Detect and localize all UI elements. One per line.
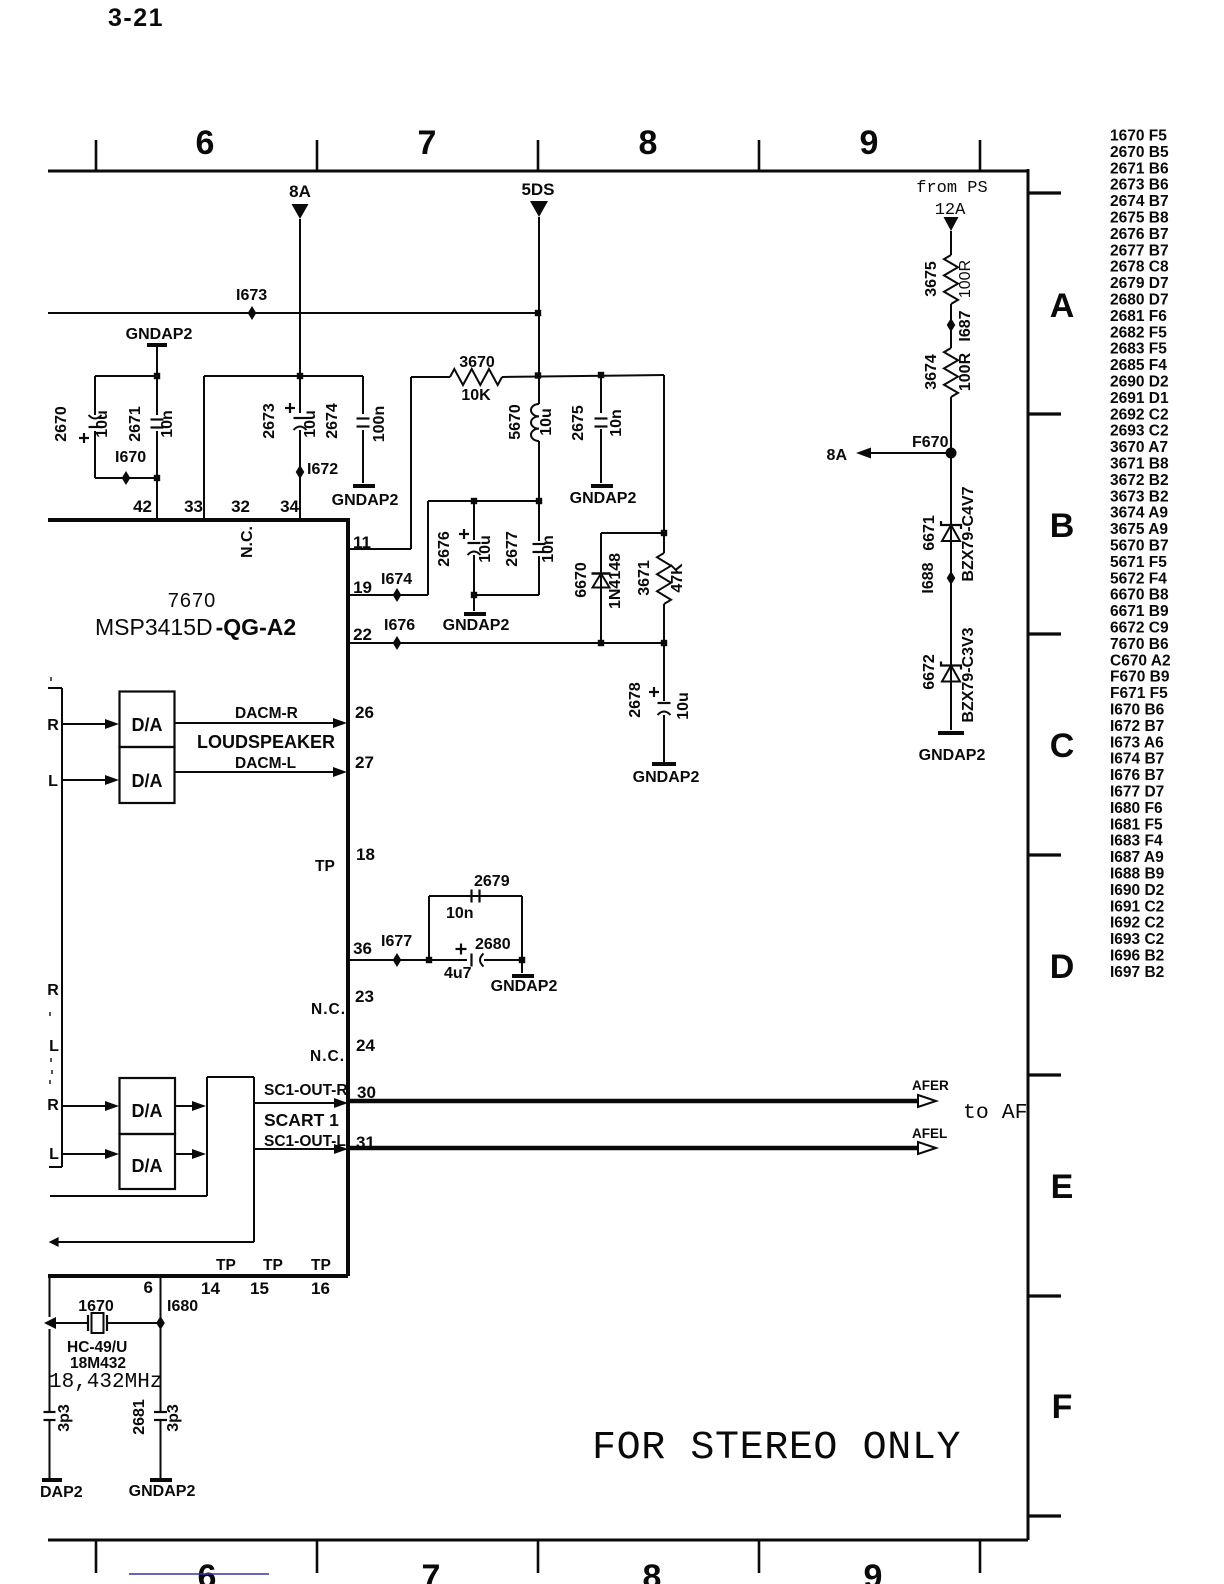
svg-text:9: 9 [864,1558,883,1584]
svg-text:I680 F6: I680 F6 [1110,800,1163,817]
svg-text:4u7: 4u7 [444,965,472,982]
svg-text:2676: 2676 [436,531,453,567]
svg-text:2680 D7: 2680 D7 [1110,292,1169,309]
svg-text:AFEL: AFEL [912,1126,947,1141]
svg-text:3p3: 3p3 [56,1404,73,1432]
svg-text:3672 B2: 3672 B2 [1110,472,1169,489]
svg-text:I693 C2: I693 C2 [1110,931,1164,948]
svg-text:TP: TP [311,1257,331,1274]
svg-text:100R: 100R [957,352,974,391]
svg-text:6672: 6672 [921,654,938,690]
svg-text:MSP3415D-QG-A2: MSP3415D-QG-A2 [95,614,296,640]
svg-text:6671: 6671 [921,515,938,551]
svg-text:2692 C2: 2692 C2 [1110,406,1169,423]
svg-text:I674: I674 [381,571,412,588]
svg-text:I683 F4: I683 F4 [1110,833,1163,850]
svg-text:DACM-R: DACM-R [235,705,298,722]
svg-text:BZX79-C4V7: BZX79-C4V7 [960,486,977,581]
svg-text:R: R [47,982,59,999]
svg-text:SC1-OUT-R: SC1-OUT-R [264,1082,348,1099]
svg-text:18: 18 [356,845,375,864]
svg-text:3673 B2: 3673 B2 [1110,488,1169,505]
svg-text:3670 A7: 3670 A7 [1110,439,1168,456]
svg-text:N.C.: N.C. [311,1001,346,1018]
svg-text:D/A: D/A [132,771,163,791]
svg-text:2675 B8: 2675 B8 [1110,210,1169,227]
svg-text:I687 A9: I687 A9 [1110,849,1164,866]
svg-text:I674 B7: I674 B7 [1110,751,1164,768]
svg-text:9: 9 [860,124,879,162]
svg-text:5670 B7: 5670 B7 [1110,538,1169,555]
svg-text:8: 8 [639,124,658,162]
svg-text:GNDAP2: GNDAP2 [570,490,637,507]
svg-text:DAP2: DAP2 [40,1484,83,1501]
svg-text:2693 C2: 2693 C2 [1110,423,1169,440]
svg-text:100R: 100R [957,260,974,298]
svg-text:I692 C2: I692 C2 [1110,915,1164,932]
svg-text:2676 B7: 2676 B7 [1110,226,1169,243]
svg-text:7670 B6: 7670 B6 [1110,636,1169,653]
svg-text:100n: 100n [371,406,388,442]
svg-text:2670: 2670 [53,406,70,442]
svg-text:C: C [1050,727,1075,765]
svg-text:18M432: 18M432 [70,1355,126,1372]
svg-text:FOR STEREO ONLY: FOR STEREO ONLY [592,1426,961,1471]
svg-text:6: 6 [144,1278,153,1297]
svg-text:2671: 2671 [127,406,144,442]
svg-text:I672 B7: I672 B7 [1110,718,1164,735]
svg-text:I691 C2: I691 C2 [1110,898,1164,915]
svg-text:3671 B8: 3671 B8 [1110,456,1169,473]
svg-text:42: 42 [133,497,152,516]
svg-text:I688: I688 [920,562,937,593]
svg-text:26: 26 [355,703,374,722]
svg-text:2681: 2681 [131,1399,148,1435]
svg-text:2674: 2674 [324,403,341,439]
svg-text:33: 33 [184,497,203,516]
svg-text:F670: F670 [912,434,949,451]
svg-text:L: L [49,1038,59,1055]
svg-text:23: 23 [355,987,374,1006]
svg-text:2680: 2680 [475,936,511,953]
svg-text:3671: 3671 [636,560,653,596]
svg-text:24: 24 [356,1036,375,1055]
svg-text:L: L [49,1146,59,1163]
svg-text:BZX79-C3V3: BZX79-C3V3 [960,627,977,722]
svg-text:I697 B2: I697 B2 [1110,964,1164,981]
svg-text:I670 B6: I670 B6 [1110,702,1165,719]
svg-text:B: B [1050,507,1075,545]
svg-text:32: 32 [231,497,250,516]
svg-text:10u: 10u [94,410,111,438]
svg-text:GNDAP2: GNDAP2 [491,978,558,995]
svg-text:2681 F6: 2681 F6 [1110,308,1167,325]
svg-text:I688 B9: I688 B9 [1110,866,1165,883]
svg-text:E: E [1051,1168,1074,1206]
svg-text:D/A: D/A [132,1156,163,1176]
svg-text:2670 B5: 2670 B5 [1110,144,1169,161]
svg-text:SC1-OUT-L: SC1-OUT-L [264,1133,346,1150]
svg-text:1670 F5: 1670 F5 [1110,128,1167,145]
svg-text:I690 D2: I690 D2 [1110,882,1164,899]
svg-text:2679: 2679 [474,873,510,890]
svg-text:2674 B7: 2674 B7 [1110,193,1169,210]
svg-text:22: 22 [353,625,372,644]
svg-text:47K: 47K [669,563,686,593]
svg-text:2682 F5: 2682 F5 [1110,324,1167,341]
svg-text:GNDAP2: GNDAP2 [443,617,510,634]
svg-text:6670 B8: 6670 B8 [1110,587,1169,604]
svg-text:TP: TP [263,1257,283,1274]
svg-text:1N4148: 1N4148 [607,553,624,609]
svg-text:D/A: D/A [132,715,163,735]
svg-text:I687: I687 [957,310,974,341]
svg-text:3-21: 3-21 [108,4,164,32]
svg-text:I672: I672 [307,461,338,478]
svg-text:5671 F5: 5671 F5 [1110,554,1167,571]
svg-text:D: D [1050,948,1075,986]
svg-text:2685 F4: 2685 F4 [1110,357,1167,374]
svg-text:3674 A9: 3674 A9 [1110,505,1168,522]
svg-text:LOUDSPEAKER: LOUDSPEAKER [197,732,335,752]
svg-text:I696 B2: I696 B2 [1110,948,1164,965]
svg-text:10u: 10u [675,692,692,720]
svg-text:2673 B6: 2673 B6 [1110,177,1169,194]
svg-text:8A: 8A [289,182,311,201]
svg-text:AFER: AFER [912,1078,949,1093]
svg-text:7: 7 [422,1558,441,1584]
svg-text:34: 34 [280,497,299,516]
svg-text:15: 15 [250,1279,269,1298]
svg-text:3670: 3670 [459,354,495,371]
svg-text:10n: 10n [159,410,176,438]
svg-text:2691 D1: 2691 D1 [1110,390,1169,407]
svg-text:SCART 1: SCART 1 [264,1110,339,1130]
svg-text:2683 F5: 2683 F5 [1110,341,1167,358]
svg-text:I670: I670 [115,449,146,466]
svg-text:2679 D7: 2679 D7 [1110,275,1169,292]
svg-text:16: 16 [311,1279,330,1298]
svg-text:I673: I673 [236,287,267,304]
svg-text:10K: 10K [461,387,491,404]
svg-text:5DS: 5DS [521,180,554,199]
svg-text:11: 11 [353,533,371,552]
svg-text:18,432MHz: 18,432MHz [49,1371,162,1394]
svg-text:10n: 10n [540,535,557,563]
svg-text:6671 B9: 6671 B9 [1110,603,1169,620]
svg-text:3674: 3674 [923,354,940,390]
svg-text:I677 D7: I677 D7 [1110,784,1164,801]
svg-text:I676 B7: I676 B7 [1110,767,1164,784]
svg-text:HC-49/U: HC-49/U [67,1339,127,1356]
svg-text:I673 A6: I673 A6 [1110,734,1164,751]
svg-text:TP: TP [315,858,335,875]
svg-text:from PS: from PS [916,179,987,198]
svg-text:I677: I677 [381,933,412,950]
svg-text:F670 B9: F670 B9 [1110,669,1170,686]
svg-text:TP: TP [216,1257,236,1274]
svg-text:2678 C8: 2678 C8 [1110,259,1169,276]
svg-text:5672 F4: 5672 F4 [1110,570,1167,587]
svg-text:3675: 3675 [923,261,940,297]
svg-text:10u: 10u [302,410,319,438]
svg-text:D/A: D/A [132,1101,163,1121]
svg-text:N.C.: N.C. [310,1048,345,1065]
svg-text:R: R [47,1097,59,1114]
svg-text:7670: 7670 [168,590,217,612]
svg-text:A: A [1050,287,1075,325]
svg-text:10u: 10u [538,408,555,436]
svg-text:6670: 6670 [573,562,590,598]
svg-text:19: 19 [353,578,372,597]
svg-text:10n: 10n [608,409,625,437]
svg-text:GNDAP2: GNDAP2 [126,326,193,343]
svg-text:I680: I680 [167,1298,198,1315]
svg-text:36: 36 [353,939,372,958]
svg-text:8: 8 [643,1558,662,1584]
svg-text:2677 B7: 2677 B7 [1110,242,1169,259]
svg-text:N.C.: N.C. [239,526,256,558]
svg-text:2673: 2673 [261,403,278,439]
svg-text:7: 7 [418,124,437,162]
svg-text:5670: 5670 [507,404,524,440]
svg-text:6672 C9: 6672 C9 [1110,620,1169,637]
svg-text:GNDAP2: GNDAP2 [129,1483,196,1500]
svg-text:GNDAP2: GNDAP2 [919,747,986,764]
svg-text:10u: 10u [477,535,494,563]
svg-text:to AF: to AF [963,1101,1028,1125]
svg-text:R: R [47,717,59,734]
svg-text:3p3: 3p3 [165,1404,182,1432]
svg-text:DACM-L: DACM-L [235,755,296,772]
svg-text:GNDAP2: GNDAP2 [332,492,399,509]
svg-text:14: 14 [201,1279,220,1298]
svg-text:2677: 2677 [504,531,521,567]
svg-text:3675 A9: 3675 A9 [1110,521,1168,538]
svg-text:F671 F5: F671 F5 [1110,685,1168,702]
svg-text:F: F [1052,1388,1073,1426]
svg-text:2671 B6: 2671 B6 [1110,160,1169,177]
svg-text:L: L [48,773,58,790]
svg-text:10n: 10n [446,905,474,922]
svg-text:8A: 8A [827,447,848,464]
svg-text:6: 6 [196,124,215,162]
svg-text:I681 F5: I681 F5 [1110,816,1163,833]
svg-text:C670 A2: C670 A2 [1110,652,1171,669]
svg-text:2675: 2675 [570,405,587,441]
svg-text:2678: 2678 [627,682,644,718]
svg-text:I676: I676 [384,617,415,634]
svg-text:GNDAP2: GNDAP2 [633,769,700,786]
svg-text:6: 6 [198,1558,217,1584]
svg-text:2690 D2: 2690 D2 [1110,374,1169,391]
svg-text:27: 27 [355,753,374,772]
